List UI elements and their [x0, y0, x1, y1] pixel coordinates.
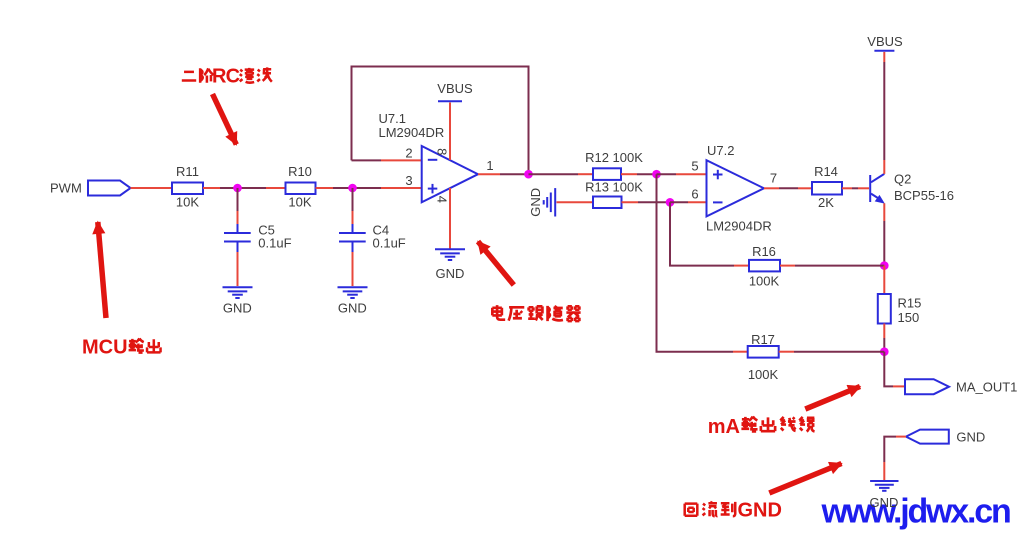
wire GND port to ground [884, 437, 906, 480]
annotation arrow to PWM [98, 222, 106, 318]
svg-text:8: 8 [435, 148, 450, 155]
svg-text:Q2: Q2 [894, 172, 911, 187]
svg-text:VBUS: VBUS [867, 34, 903, 49]
ground GND left of R13 [528, 188, 555, 217]
resistor R17 [748, 332, 779, 382]
svg-text:GND: GND [338, 301, 367, 316]
wire R13 to node E [622, 201, 671, 203]
wire to R17 [733, 351, 748, 353]
wire U7.1 pin 4 to ground [449, 188, 451, 249]
annotation label MCU output [82, 337, 161, 359]
svg-text:BCP55-16: BCP55-16 [894, 188, 954, 203]
svg-text:LM2904DR: LM2904DR [706, 219, 772, 234]
wire feedback loop U7.1 [352, 67, 529, 175]
wire node G to MA_OUT1 port [884, 352, 905, 387]
svg-text:3: 3 [405, 173, 412, 188]
svg-text:100K: 100K [748, 367, 779, 382]
svg-text:150: 150 [898, 310, 920, 325]
wire R14 to Q2 base [842, 187, 869, 189]
annotation label voltage follower [492, 305, 580, 321]
capacitor C5 [224, 223, 292, 253]
wire node D to R17 row [657, 174, 734, 352]
svg-text:0.1uF: 0.1uF [258, 236, 291, 251]
svg-text:PWM: PWM [50, 181, 82, 196]
ground below C4 [338, 287, 368, 315]
resistor R14 [812, 164, 842, 210]
wire node D to U7.2 pin 5 [657, 173, 707, 175]
wire C4 to ground [352, 252, 354, 286]
svg-text:1: 1 [486, 158, 493, 173]
resistor R16 [749, 244, 780, 289]
annotation arrow to ground return [769, 464, 841, 494]
node E junction [666, 198, 675, 207]
ground U7.1 [435, 249, 465, 281]
svg-text:GND: GND [436, 266, 465, 281]
svg-text:U7.1: U7.1 [379, 111, 406, 126]
wire node E to U7.2 pin 6 [670, 201, 707, 203]
svg-text:www.jdwx.cn: www.jdwx.cn [821, 493, 1010, 531]
ground bottom right [870, 481, 899, 510]
wire R16 to node F [780, 265, 884, 267]
annotation label mA output cable [708, 416, 815, 438]
node A junction [233, 184, 242, 193]
svg-text:R12 100K: R12 100K [585, 150, 643, 165]
svg-text:2: 2 [405, 146, 412, 161]
node B junction [348, 184, 357, 193]
wire U7.1 output to node C [478, 173, 529, 175]
ground below C5 [223, 287, 253, 315]
svg-text:R10: R10 [288, 164, 312, 179]
wire R15 to node G [883, 324, 885, 352]
svg-text:U7.2: U7.2 [707, 143, 734, 158]
svg-text:2K: 2K [818, 195, 834, 210]
wire node A to R10 [238, 187, 286, 189]
resistor R10 [286, 164, 316, 210]
resistor R12 [585, 150, 643, 180]
annotation arrow to MA_OUT1 wire [805, 387, 860, 410]
port PWM [50, 181, 131, 196]
svg-text:RC: RC [212, 66, 240, 88]
svg-text:GND: GND [528, 188, 543, 217]
wire PWM to R11 [131, 187, 173, 189]
svg-text:R16: R16 [752, 244, 776, 259]
wire C5 to ground [237, 252, 239, 286]
wire node E to R16 row [670, 202, 734, 265]
wire node B to C4 [352, 188, 354, 225]
wire node C to R12 [529, 173, 594, 175]
transistor Q2 [870, 172, 954, 204]
wire VBUS to Q2 collector [883, 52, 885, 174]
node C junction [524, 170, 533, 179]
svg-text:6: 6 [691, 187, 698, 202]
wire R12 to node D [621, 173, 657, 175]
svg-text:0.1uF: 0.1uF [373, 236, 406, 251]
annotation arrow to U7.1 ground [478, 242, 514, 286]
svg-text:MA_OUT1: MA_OUT1 [956, 380, 1017, 395]
svg-text:mA: mA [708, 416, 740, 438]
svg-text:10K: 10K [176, 195, 199, 210]
node F junction [880, 261, 889, 270]
wire to R16 [734, 265, 749, 267]
wire R10 to node B [316, 187, 353, 189]
annotation label return to GND [685, 500, 782, 522]
annotation label second-order RC filter [182, 66, 272, 88]
svg-text:GND: GND [956, 430, 985, 445]
op-amp U7.1 [379, 111, 479, 202]
capacitor C4 [339, 223, 406, 253]
wire loop to U7.1 pin 2 [352, 159, 422, 161]
wire R17 to node G [779, 351, 885, 353]
svg-text:R17: R17 [751, 332, 775, 347]
resistor R15 [878, 294, 922, 325]
node G junction [880, 347, 889, 356]
svg-text:10K: 10K [288, 195, 311, 210]
wire VBUS to U7.1 pin 8 [449, 103, 451, 161]
svg-text:GND: GND [223, 301, 252, 316]
svg-text:R11: R11 [176, 164, 199, 179]
op-amp U7.2 [706, 143, 772, 234]
svg-text:GND: GND [870, 495, 899, 510]
wire node B to U7.1 pin 3 [353, 187, 422, 189]
svg-text:5: 5 [691, 159, 698, 174]
svg-text:7: 7 [770, 171, 777, 186]
power VBUS Q2 [867, 34, 903, 51]
annotation arrow to RC filter [213, 94, 237, 145]
wire Q2 emitter to node F [883, 203, 885, 265]
svg-text:R13 100K: R13 100K [585, 180, 643, 195]
wire node F to R15 [883, 266, 885, 294]
wire U7.2 output to R14 [764, 187, 812, 189]
svg-text:LM2904DR: LM2904DR [379, 125, 445, 140]
resistor R11 [172, 164, 203, 210]
node D junction [652, 170, 661, 179]
svg-text:VBUS: VBUS [437, 81, 473, 96]
wire GND to R13 [557, 201, 594, 203]
resistor R13 [585, 180, 643, 209]
port GND [906, 430, 985, 445]
svg-text:GND: GND [738, 500, 782, 522]
power VBUS U7.1 [437, 81, 473, 101]
svg-text:MCU: MCU [82, 337, 128, 359]
svg-text:100K: 100K [749, 274, 780, 289]
wire node A to C5 [237, 188, 239, 225]
port MA_OUT1 [905, 379, 1017, 394]
svg-text:R15: R15 [898, 296, 922, 311]
wire R11 to node A [203, 187, 238, 189]
svg-text:4: 4 [435, 196, 450, 203]
svg-text:R14: R14 [814, 164, 838, 179]
